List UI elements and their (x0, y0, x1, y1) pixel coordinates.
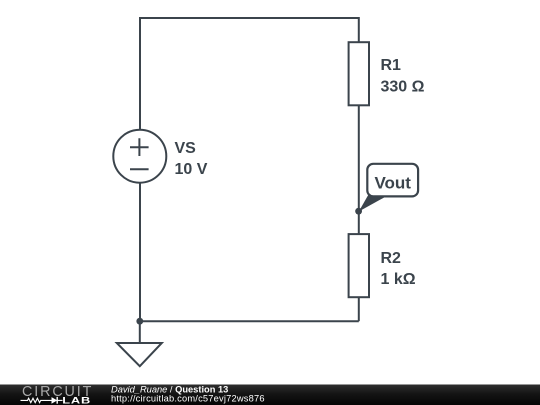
svg-text:1 kΩ: 1 kΩ (381, 271, 416, 288)
svg-text:VS: VS (175, 140, 197, 157)
node Vout flag (359, 164, 418, 212)
CircuitLab logo (21, 384, 94, 405)
node Vout junction (355, 208, 362, 215)
svg-text:LAB: LAB (62, 396, 91, 405)
svg-text:http://circuitlab.com/c57evj72: http://circuitlab.com/c57evj72ws876 (111, 394, 265, 404)
wire (358, 297, 360, 321)
voltage source VS (113, 130, 166, 183)
footer bar (0, 385, 540, 405)
wire (358, 105, 360, 211)
R1 value label (381, 57, 425, 95)
R2 value label (381, 250, 416, 288)
node junction (136, 318, 143, 325)
VS value label (175, 140, 208, 178)
resistor R1 (349, 42, 369, 105)
wire (140, 18, 359, 130)
svg-text:330 Ω: 330 Ω (381, 79, 425, 96)
ground (117, 321, 162, 366)
svg-text:R2: R2 (381, 250, 402, 267)
svg-text:R1: R1 (381, 57, 402, 74)
wire (139, 183, 141, 322)
wire (358, 211, 360, 234)
footer caption (111, 384, 265, 403)
resistor R2 (349, 234, 369, 297)
svg-text:10 V: 10 V (175, 161, 208, 178)
wire (140, 320, 359, 322)
svg-text:Vout: Vout (374, 174, 411, 193)
